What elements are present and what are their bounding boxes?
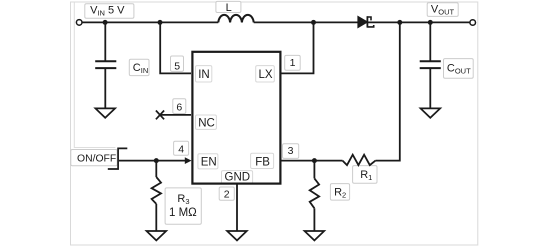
pin label EN: [198, 154, 218, 169]
pin number 2: [219, 187, 234, 201]
label COUT: [444, 59, 474, 79]
node junction EN-R3: [154, 158, 159, 163]
svg-text:1: 1: [290, 57, 296, 69]
ground (R3): [147, 231, 167, 240]
pin label FB: [251, 153, 274, 168]
diode D1 (Schottky): [358, 16, 374, 27]
node junction COUT: [428, 20, 433, 25]
wire R2 top: [313, 161, 315, 179]
wire IN pin drop: [160, 22, 191, 73]
svg-text:IN: IN: [198, 69, 210, 81]
wire GND pin 2: [236, 184, 238, 231]
terminal VOUT: [470, 20, 476, 26]
resistor R3 zigzag: [152, 177, 161, 204]
pin number 3: [283, 144, 299, 159]
op-amp U1 IC body fill: [192, 52, 280, 184]
wire top rail left: [82, 21, 219, 23]
ground (COUT): [421, 108, 441, 117]
svg-text:ON/OFF: ON/OFF: [77, 153, 116, 164]
label VOUT: [427, 3, 458, 17]
no-connect X on pin 6: [156, 111, 164, 120]
label R3 1 MOhm: [165, 188, 201, 224]
wire NC pin: [160, 114, 191, 116]
label ON/OFF: [71, 150, 117, 166]
wire R2 to ground: [313, 208, 315, 231]
svg-text:LX: LX: [259, 69, 273, 81]
svg-text:NC: NC: [198, 117, 215, 129]
wire COUT to ground: [429, 68, 431, 108]
ground (pin 2): [227, 231, 247, 240]
label R1: [353, 166, 377, 184]
svg-text:6: 6: [176, 102, 182, 114]
pin label NC: [196, 115, 217, 129]
wire R3 top: [155, 161, 157, 177]
capacitor COUT: [420, 61, 441, 68]
resistor R1 zigzag: [343, 155, 376, 165]
capacitor CIN: [95, 61, 116, 68]
wire VOUT drop to COUT: [429, 22, 431, 61]
op-amp U1 IC body outline: [192, 52, 280, 184]
pin number 1: [285, 55, 301, 70]
terminal VIN: [76, 20, 82, 26]
wire R1 to feedback tap: [376, 22, 400, 160]
wire R3 to ground: [155, 204, 157, 231]
pin number 4: [174, 141, 189, 155]
svg-text:EN: EN: [201, 157, 217, 169]
svg-text:1 MΩ: 1 MΩ: [169, 207, 197, 219]
resistor R2 zigzag: [310, 178, 319, 208]
svg-text:L: L: [226, 2, 232, 14]
label VIN 5V: [85, 4, 134, 18]
svg-text:VIN 5 V: VIN 5 V: [90, 5, 125, 18]
wire top rail right: [254, 21, 470, 23]
node junction FB tap: [397, 20, 402, 25]
wire CIN to ground: [104, 68, 106, 108]
label CIN: [129, 59, 149, 75]
svg-text:4: 4: [178, 143, 184, 155]
ON/OFF input bracket: [108, 148, 128, 169]
svg-text:2: 2: [224, 189, 230, 201]
wire FB pin: [282, 160, 343, 162]
ground (CIN): [95, 108, 115, 117]
node junction VIN-IN: [158, 20, 163, 25]
svg-text:FB: FB: [255, 157, 270, 169]
pin label GND: [222, 171, 253, 184]
label R2: [330, 184, 349, 201]
inductor L: [218, 15, 253, 22]
node junction FB-R2: [312, 158, 317, 163]
svg-text:5: 5: [174, 60, 180, 72]
EN pin arrowhead: [185, 157, 192, 164]
wire EN pin from ON/OFF: [119, 160, 186, 162]
svg-text:3: 3: [288, 145, 294, 157]
label L: [216, 1, 241, 14]
wire LX pin to rail: [282, 22, 314, 73]
node junction LX-rail: [311, 20, 316, 25]
pin number 5: [171, 56, 184, 72]
ground (R2): [305, 231, 325, 240]
pin label IN: [196, 66, 212, 82]
pin label LX: [256, 66, 275, 82]
pin number 6: [173, 99, 186, 114]
wire CIN top drop: [104, 22, 106, 61]
svg-text:GND: GND: [225, 171, 251, 183]
node junction VIN-CIN: [103, 20, 108, 25]
